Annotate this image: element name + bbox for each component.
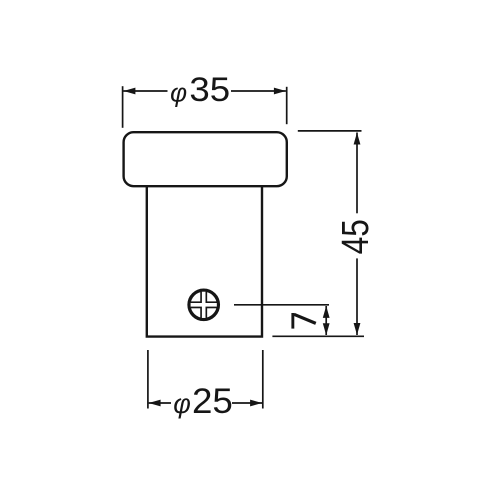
svg-text:35: 35	[189, 71, 230, 109]
dimension 45: bottom extension line	[272, 335, 364, 337]
dimension 45: top arrowhead	[354, 133, 361, 145]
dimension phi25: left extension line	[147, 350, 149, 409]
cap (knob head, rounded rectangle)	[124, 132, 287, 186]
dimension 45: line bottom segment	[356, 258, 358, 335]
dimension phi35: line right segment	[231, 90, 286, 92]
dimension phi25: right extension line	[262, 350, 264, 409]
dimension 7: line	[325, 306, 327, 335]
dimension phi35: right extension line	[286, 87, 288, 124]
dimension phi25: left arrowhead	[149, 400, 161, 407]
dimension 7: bottom arrowhead	[323, 323, 330, 335]
body (knob base, open-top rectangle)	[147, 186, 262, 336]
dimension phi25: right arrowhead	[250, 400, 262, 407]
dimension 45: top extension line	[298, 130, 362, 132]
dimension phi25: line left segment	[149, 402, 171, 404]
svg-text:φ: φ	[170, 77, 187, 107]
svg-text:45: 45	[334, 219, 376, 254]
svg-text:φ: φ	[173, 389, 191, 419]
dimension 7: label (rotated, drawn as path)	[291, 313, 316, 329]
screw phillips cross	[191, 292, 217, 318]
dimension phi35: left extension line	[122, 86, 124, 128]
dimension phi35: right arrowhead	[274, 88, 286, 95]
dimension 45: line top segment	[356, 133, 358, 214]
screw head circle	[189, 290, 218, 319]
dimension phi35: line left segment	[123, 90, 167, 92]
dimension phi25: line right segment	[232, 402, 262, 404]
screw centre extension line	[234, 304, 329, 306]
dimension 45: bottom arrowhead	[354, 323, 361, 335]
dimension 7: top arrowhead	[323, 306, 330, 318]
dimension phi35: left arrowhead	[123, 88, 135, 95]
svg-text:25: 25	[192, 381, 233, 421]
